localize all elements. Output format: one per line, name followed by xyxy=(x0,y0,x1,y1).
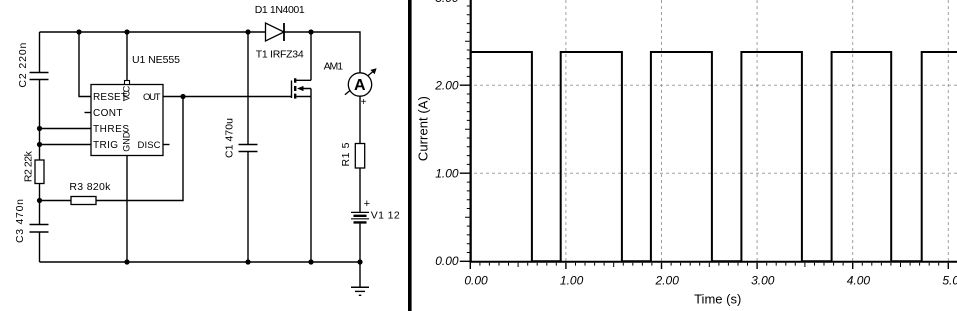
svg-text:Current (A): Current (A) xyxy=(415,96,430,161)
wire ammeter to R1 xyxy=(359,96,361,143)
wire DISC stub xyxy=(163,144,170,146)
wire R1 to battery xyxy=(359,168,361,212)
wire top rail right segment to ammeter corner xyxy=(284,32,360,73)
chart minor ticks xyxy=(465,6,939,267)
wire GND branch xyxy=(126,156,128,263)
svg-text:2.00: 2.00 xyxy=(434,79,459,93)
chart y axis xyxy=(470,0,472,263)
svg-text:0.00: 0.00 xyxy=(435,254,459,268)
svg-text:+: + xyxy=(361,97,367,108)
node bottom rail battery junction xyxy=(357,259,362,264)
svg-text:R2 22k: R2 22k xyxy=(23,150,35,182)
svg-text:R1 5: R1 5 xyxy=(340,142,352,166)
svg-text:0.00: 0.00 xyxy=(464,274,488,288)
wire left rail segment 1 xyxy=(39,32,41,73)
diode D1 xyxy=(266,23,285,41)
wire left rail segment 4 xyxy=(39,232,41,262)
svg-text:U1 NE555: U1 NE555 xyxy=(132,54,180,66)
panel divider bar xyxy=(408,0,412,311)
wire bottom rail xyxy=(40,261,361,263)
svg-text:5.00: 5.00 xyxy=(942,274,957,288)
svg-text:R3 820k: R3 820k xyxy=(69,181,111,193)
wire T1 source down xyxy=(310,89,312,263)
svg-text:CONT: CONT xyxy=(93,108,123,119)
resistor R2 xyxy=(35,160,44,184)
resistor R1 xyxy=(355,144,364,169)
svg-text:1.00: 1.00 xyxy=(435,167,459,181)
wire left rail segment 2 xyxy=(39,80,41,161)
svg-text:1.00: 1.00 xyxy=(560,274,584,288)
svg-text:3.00: 3.00 xyxy=(435,0,459,5)
ammeter AM1 xyxy=(345,68,377,96)
pin VCC top square xyxy=(125,81,130,85)
wire battery to bottom rail xyxy=(359,224,361,262)
svg-text:VCC: VCC xyxy=(122,85,132,101)
wire left rail segment 3 xyxy=(39,184,41,225)
capacitor C2 xyxy=(30,73,49,80)
svg-text:C2 220n: C2 220n xyxy=(17,42,29,87)
wire VCC branch xyxy=(126,32,128,81)
capacitor C1 xyxy=(239,145,258,152)
svg-text:Time (s): Time (s) xyxy=(694,291,741,306)
wire T1 drain up xyxy=(310,32,312,80)
node left rail THRES junction xyxy=(37,126,42,131)
transistor Q1 mosfet T1 IRFZ34 xyxy=(292,78,312,98)
node bottom rail C1 junction xyxy=(245,259,250,264)
battery V1 xyxy=(351,212,369,222)
node top rail VCC junction xyxy=(124,29,129,34)
svg-text:C1 470u: C1 470u xyxy=(224,118,236,158)
wire THRES xyxy=(40,128,92,130)
op-amp U1 IC body NE555 xyxy=(91,85,163,156)
wire RESET branch xyxy=(79,32,91,97)
node left rail R3 junction xyxy=(37,198,42,203)
wire R3 to left rail xyxy=(40,200,72,202)
node OUT junction xyxy=(180,94,185,99)
svg-text:AM1: AM1 xyxy=(324,60,344,72)
svg-text:A: A xyxy=(354,77,366,94)
svg-text:TRIG: TRIG xyxy=(93,140,118,151)
svg-text:OUT: OUT xyxy=(143,92,161,103)
svg-text:C3 470n: C3 470n xyxy=(14,199,26,243)
svg-text:2.00: 2.00 xyxy=(655,274,680,288)
svg-text:4.00: 4.00 xyxy=(847,274,871,288)
node top rail drain junction xyxy=(308,29,313,34)
ground xyxy=(351,262,369,295)
wire OUT to gate xyxy=(163,96,292,98)
svg-text:GND: GND xyxy=(122,131,132,152)
chart y ticks xyxy=(460,85,470,261)
wire top rail left segment xyxy=(40,31,266,33)
svg-text:D1 1N4001: D1 1N4001 xyxy=(255,4,305,16)
wire C1 to bottom rail xyxy=(247,152,249,263)
svg-text:DISC: DISC xyxy=(138,140,161,151)
svg-text:+: + xyxy=(364,198,370,210)
node bottom rail GND junction xyxy=(124,259,129,264)
capacitor C3 xyxy=(30,225,49,233)
wire OUT feedback down xyxy=(96,97,183,201)
wire C1 branch vertical xyxy=(247,32,249,145)
waveform square wave xyxy=(471,52,957,261)
svg-text:3.00: 3.00 xyxy=(751,274,775,288)
chart x axis xyxy=(469,261,957,263)
chart x ticks xyxy=(470,263,948,269)
node top rail C1 junction xyxy=(245,29,250,34)
wire CONT stub xyxy=(85,112,92,114)
node top rail RESET junction xyxy=(76,29,81,34)
resistor R3 xyxy=(71,197,96,205)
svg-text:T1 IRFZ34: T1 IRFZ34 xyxy=(256,49,304,61)
svg-text:V1 12: V1 12 xyxy=(371,210,400,222)
node bottom rail source junction xyxy=(308,259,313,264)
wire TRIG xyxy=(40,144,92,146)
node left rail TRIG junction xyxy=(37,142,42,147)
chart gridlines xyxy=(474,0,957,261)
